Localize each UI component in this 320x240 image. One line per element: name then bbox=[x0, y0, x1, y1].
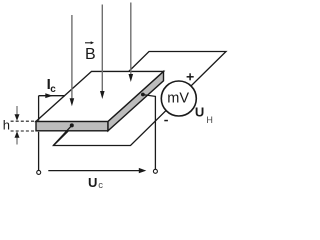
svg-text:c: c bbox=[98, 180, 103, 191]
svg-text:h: h bbox=[3, 117, 10, 132]
svg-text:B: B bbox=[85, 46, 96, 63]
svg-text:mV: mV bbox=[167, 91, 189, 107]
svg-text:c: c bbox=[50, 84, 56, 95]
svg-text:U: U bbox=[195, 105, 204, 120]
svg-text:H: H bbox=[206, 115, 213, 125]
svg-text:U: U bbox=[88, 175, 97, 190]
